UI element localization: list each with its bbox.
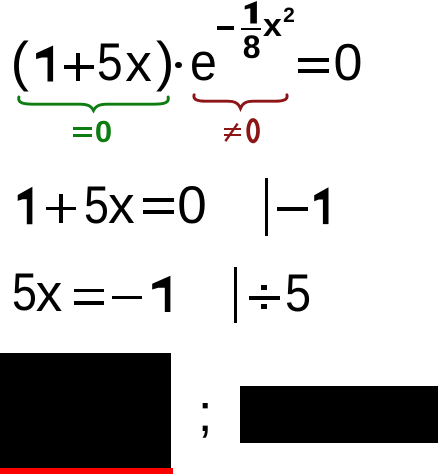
fraction denominator 8 [243,31,261,63]
row2 plus vertical bar [59,194,63,223]
red not-equal top bar [224,128,242,131]
row2 digit 5 [84,179,109,232]
fraction bar [241,28,261,31]
row3 equals bottom bar [74,301,105,305]
Euler e [190,36,217,89]
row3 digit 5 [12,266,37,319]
row2 equals top bar [143,198,174,202]
censored solution box left [0,353,171,469]
green equals bottom bar [73,134,92,137]
row2 variable x [108,179,135,232]
row3 divide bottom dot [261,304,267,309]
red underline below left box [0,468,173,474]
exponent variable x [263,9,282,41]
zero right side row1 [334,37,363,89]
row2 plus horizontal bar [46,207,76,210]
row3 minus one dash [112,296,142,299]
row3 pipe operation bar [234,267,237,323]
green equals top bar [73,127,92,130]
exponent minus sign [217,26,234,30]
red not-equal bottom bar [224,134,242,137]
row2 minus one dash [277,207,308,211]
multiplication dot [175,62,182,69]
row2 pipe operation bar [265,178,268,237]
separator semicolon [198,387,213,440]
row2 zero [177,179,206,232]
plus sign vertical bar (1+5x) [76,53,80,81]
row3 divide bar [249,296,280,300]
plus sign horizontal bar (1+5x) [64,65,94,69]
row2 equals bottom bar [143,210,174,214]
censored solution box right [240,386,438,443]
close paren of (1+5x) [156,34,174,89]
exponent squared 2 [283,5,295,26]
row3 variable x [36,267,63,320]
open paren of (1+5x) [11,34,29,89]
equals sign bottom bar row1 [298,69,329,73]
row3 divisor 5 [285,267,311,320]
row3 divide top dot [261,285,267,290]
green zero [95,116,112,147]
row3 equals top bar [74,289,105,293]
variable x of (1+5x) [125,37,152,90]
digit 5 of (1+5x) [97,36,123,89]
equals sign top bar row1 [298,58,329,62]
